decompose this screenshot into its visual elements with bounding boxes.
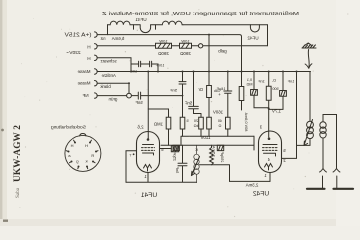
svg-text:25pF: 25pF	[173, 151, 177, 160]
svg-text:500: 500	[272, 87, 278, 91]
svg-text:1,7V: 1,7V	[272, 109, 281, 114]
svg-text:5nF: 5nF	[170, 88, 177, 93]
svg-text:R: R	[91, 153, 94, 158]
earth symbol	[302, 43, 316, 48]
svg-text:10n: 10n	[131, 70, 137, 74]
svg-text:220V~: 220V~	[66, 50, 80, 56]
capacitor trimmer hatched d	[217, 145, 223, 150]
svg-text:5nF: 5nF	[175, 166, 179, 173]
wire blank down to bottom bus	[97, 83, 129, 93]
scan specks	[1, 129, 4, 132]
wire NF	[97, 95, 126, 97]
inductor heater choke L1	[108, 21, 138, 25]
svg-text:Dr: Dr	[198, 87, 203, 92]
svg-text:g: g	[76, 158, 78, 163]
svg-text:110V: 110V	[200, 135, 210, 140]
wire Masse to bus	[97, 71, 129, 73]
arrow core transformer	[304, 120, 313, 146]
speaker bar left	[307, 188, 325, 190]
svg-text:UKW-AGW 2: UKW-AGW 2	[13, 125, 23, 182]
shield box tube1	[126, 151, 137, 183]
terminal H2 schwarz	[95, 55, 98, 60]
junction dots on bus	[128, 34, 298, 110]
svg-text:k: k	[86, 158, 88, 163]
tube UF41 anode dot	[147, 138, 150, 141]
svg-text:Ω: Ω	[218, 124, 221, 128]
svg-text:H: H	[85, 143, 88, 148]
wire right edge of heater loop	[267, 25, 269, 46]
resistor 500 ohm	[266, 72, 271, 138]
capacitor electrolytic 16uF	[224, 72, 232, 118]
socket key bump	[80, 134, 86, 136]
wire resistor feed	[194, 114, 202, 118]
terminal Masse 2 blank	[95, 81, 98, 86]
resistor 0,1M box	[239, 87, 244, 111]
svg-text:5nF: 5nF	[184, 101, 192, 106]
wire osc tap	[200, 165, 230, 182]
svg-text:UF42: UF42	[253, 190, 269, 197]
svg-text:40: 40	[218, 119, 222, 123]
connector circle gelb	[198, 44, 202, 48]
tube UF42 grids	[263, 147, 278, 149]
plug arrow right	[333, 169, 340, 173]
svg-text:Meßinstrument für Spannungen:: Meßinstrument für Spannungen: UGW, für S…	[101, 11, 299, 16]
svg-text:UF42: UF42	[247, 36, 259, 41]
resistor R 390 ohm b	[180, 43, 192, 48]
svg-text:10W: 10W	[159, 39, 167, 44]
svg-text:MΩ: MΩ	[246, 82, 252, 86]
resistor Dr box	[207, 86, 212, 118]
terminal H1	[95, 44, 98, 49]
svg-text:blank: blank	[99, 84, 110, 89]
capacitor 5nF NF	[131, 92, 182, 99]
svg-text:Saba: Saba	[15, 187, 21, 198]
tube UF42 cathode	[264, 153, 276, 156]
svg-text:1nF: 1nF	[287, 80, 294, 84]
wire top line	[183, 24, 268, 26]
svg-text:schwarz: schwarz	[100, 59, 116, 64]
tube UF42 anode	[263, 144, 277, 146]
svg-text:5,6mA: 5,6mA	[112, 36, 125, 41]
plug arrow left	[320, 169, 327, 173]
svg-text:Masse: Masse	[77, 69, 90, 74]
tube UF41 anode	[143, 144, 154, 146]
svg-text:1MΩ: 1MΩ	[154, 122, 163, 127]
inductor osc coil	[194, 145, 199, 182]
svg-text:160V: 160V	[213, 110, 223, 115]
svg-text:5nF: 5nF	[135, 100, 143, 105]
svg-text:grün: grün	[108, 96, 117, 101]
svg-text:K: K	[195, 148, 198, 152]
svg-text:7: 7	[129, 154, 131, 158]
svg-text:2,3mA: 2,3mA	[246, 183, 259, 188]
tube UF42 envelope	[259, 131, 282, 173]
capacitor 10nF b	[150, 61, 158, 71]
svg-text:Antlitze: Antlitze	[101, 73, 116, 78]
terminal Masse 1	[95, 69, 98, 74]
wire anode bracket tube2	[282, 72, 297, 159]
resistor R 390 ohm a	[156, 43, 172, 48]
capacitor 10nF a	[131, 61, 150, 67]
svg-text:2,6: 2,6	[137, 125, 144, 130]
svg-text:20: 20	[194, 119, 198, 123]
capacitor 5nF osc	[178, 145, 187, 182]
socket pins	[68, 142, 98, 168]
tube UF41 cathode lead	[147, 173, 149, 183]
capacitor 5nF bus b	[189, 72, 199, 114]
resistor R4	[207, 117, 212, 136]
svg-text:390Ω: 390Ω	[157, 51, 168, 56]
tube UF42 anode dot	[268, 137, 271, 140]
bottom bus	[126, 180, 270, 183]
speaker bar right	[334, 188, 354, 190]
resistor R5	[226, 117, 231, 136]
node heater left	[133, 25, 135, 29]
wire W_A	[108, 35, 242, 87]
heater UF41	[140, 25, 150, 33]
resistor R3	[199, 117, 204, 136]
winding zigzag	[210, 145, 214, 165]
heater UF42	[250, 25, 259, 32]
speaker stub right	[336, 176, 338, 189]
svg-text:5: 5	[186, 119, 188, 123]
wire x209 vertical	[208, 35, 210, 86]
svg-text:(+A 215V: (+A 215V	[64, 32, 92, 38]
svg-text:390Ω: 390Ω	[179, 51, 190, 56]
svg-text:250pF: 250pF	[220, 151, 224, 162]
wire anode line tube1	[147, 72, 149, 139]
svg-text:H: H	[87, 45, 90, 50]
chassis bus	[130, 71, 311, 73]
tube UF42 heater	[265, 164, 273, 171]
svg-text:10nF: 10nF	[155, 64, 164, 68]
socket circle	[65, 135, 101, 171]
tube UF41 grids	[142, 147, 155, 149]
svg-text:80V 0,6mA: 80V 0,6mA	[244, 112, 248, 131]
mirrored text group	[51, 11, 299, 199]
svg-text:16µF: 16µF	[216, 87, 225, 91]
paper noise	[19, 9, 348, 217]
svg-text:kΩ: kΩ	[193, 124, 198, 128]
resistor 1M grid	[148, 109, 171, 145]
wire gelb	[203, 45, 268, 47]
line A 110V	[181, 136, 254, 145]
svg-text:+: +	[218, 92, 221, 97]
socket pin ticks	[66, 140, 98, 169]
wire	[97, 45, 198, 47]
svg-text:H: H	[70, 143, 73, 148]
capacitor trimmer 250pF tube1	[171, 146, 178, 152]
capacitor trimmer hatched c	[173, 145, 179, 150]
svg-text:Sockelschaltung: Sockelschaltung	[51, 125, 86, 131]
wire +A terminal to top line	[97, 25, 107, 35]
svg-text:H: H	[87, 56, 90, 61]
svg-text:1nF: 1nF	[258, 80, 265, 84]
svg-text:UF41: UF41	[141, 192, 157, 199]
resistor R2	[180, 95, 185, 136]
wire grid tube1 right	[160, 148, 172, 150]
svg-text:10W: 10W	[181, 39, 189, 44]
connector circle NF	[127, 93, 132, 98]
svg-text:2,5mA: 2,5mA	[211, 146, 215, 157]
tube UF41 envelope	[137, 132, 160, 173]
transformer secondary	[320, 115, 337, 169]
tube UF41 cathode	[143, 153, 154, 155]
capacitor trimmer hatched b	[269, 72, 287, 110]
earth arrow	[305, 50, 312, 69]
terminal NF gruen	[95, 93, 98, 98]
wire H2 to caps	[97, 58, 131, 72]
tube UF41 heater	[144, 165, 152, 172]
svg-text:NF: NF	[82, 93, 88, 98]
capacitor 5nF bus a	[179, 72, 186, 96]
svg-text:Masse: Masse	[77, 81, 90, 86]
line B	[161, 136, 254, 150]
svg-text:gelb: gelb	[218, 49, 227, 54]
inductor heater choke L2	[137, 21, 183, 25]
svg-text:UF41: UF41	[135, 17, 147, 22]
pin 7 dot	[133, 153, 135, 155]
svg-text:rot: rot	[100, 36, 106, 41]
transformer primary	[297, 72, 314, 146]
terminal +A 215V	[95, 32, 98, 37]
speaker stub left	[322, 176, 324, 189]
node heater right	[155, 25, 157, 29]
tube UF42 cathode lead	[269, 173, 271, 182]
capacitor trimmer hatched a	[251, 72, 269, 108]
arrow core osc	[191, 157, 199, 176]
svg-text:Ω,: Ω,	[272, 79, 276, 83]
